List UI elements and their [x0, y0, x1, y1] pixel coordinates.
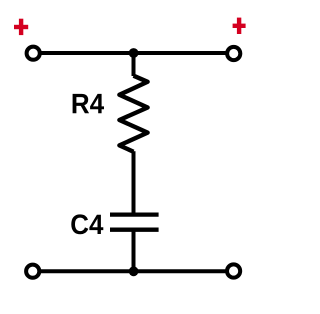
- wire from top node down to resistor: [132, 53, 136, 76]
- wire from capacitor down to bottom node: [132, 230, 136, 272]
- node junction bottom: [129, 266, 139, 276]
- terminal top-right: [227, 47, 240, 60]
- label R4: [73, 94, 104, 113]
- polarity plus top-right: [233, 18, 246, 34]
- polarity plus top-left: [14, 19, 28, 35]
- node junction top: [129, 48, 139, 58]
- terminal bottom-right: [227, 264, 240, 277]
- terminal top-left: [27, 47, 40, 60]
- resistor R4: [119, 76, 147, 152]
- terminal bottom-left: [26, 265, 39, 278]
- wire top horizontal: [33, 51, 234, 55]
- wire bottom horizontal: [33, 269, 234, 273]
- wire from resistor down to capacitor: [132, 151, 136, 215]
- label C4: [71, 214, 103, 234]
- capacitor C4: [110, 215, 159, 230]
